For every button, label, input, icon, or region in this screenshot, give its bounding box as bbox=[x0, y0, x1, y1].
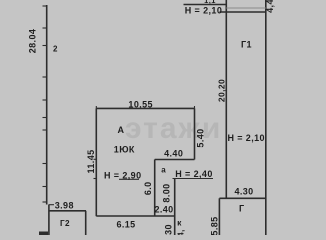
svg-text:1,1: 1,1 bbox=[204, 0, 216, 5]
svg-text:А: А bbox=[118, 125, 125, 135]
svg-text:8.00: 8.00 bbox=[162, 183, 172, 202]
svg-text:1ЮК: 1ЮК bbox=[114, 145, 135, 155]
svg-text:5.85: 5.85 bbox=[209, 216, 219, 235]
svg-text:4,4: 4,4 bbox=[265, 0, 275, 13]
svg-text:Н = 2,40: Н = 2,40 bbox=[175, 169, 212, 179]
svg-text:Г1: Г1 bbox=[241, 40, 252, 50]
svg-text:2.40: 2.40 bbox=[154, 205, 173, 215]
svg-text:3.98: 3.98 bbox=[55, 201, 74, 211]
svg-text:Н = 2,10: Н = 2,10 bbox=[185, 6, 222, 16]
svg-text:6.15: 6.15 bbox=[116, 220, 135, 230]
svg-text:4.40: 4.40 bbox=[164, 149, 183, 159]
svg-text:Г2: Г2 bbox=[60, 219, 70, 228]
svg-text:11.45: 11.45 bbox=[86, 149, 96, 173]
svg-text:а: а bbox=[161, 166, 166, 175]
svg-text:5.40: 5.40 bbox=[195, 128, 205, 147]
svg-text:4.30: 4.30 bbox=[234, 187, 253, 197]
svg-text:Г: Г bbox=[239, 204, 245, 214]
svg-text:к: к bbox=[177, 218, 182, 228]
svg-text:2: 2 bbox=[53, 45, 58, 54]
svg-text:30: 30 bbox=[163, 224, 173, 235]
svg-text:6.0: 6.0 bbox=[143, 181, 153, 195]
svg-text:20,20: 20,20 bbox=[217, 79, 227, 102]
svg-text:28.04: 28.04 bbox=[28, 29, 38, 54]
svg-text:этажи: этажи bbox=[125, 112, 222, 145]
svg-text:Н = 2,10: Н = 2,10 bbox=[227, 133, 264, 143]
svg-text:Н = 2,90: Н = 2,90 bbox=[104, 171, 141, 181]
svg-text:10.55: 10.55 bbox=[128, 100, 153, 110]
svg-text:4,: 4, bbox=[177, 229, 186, 235]
